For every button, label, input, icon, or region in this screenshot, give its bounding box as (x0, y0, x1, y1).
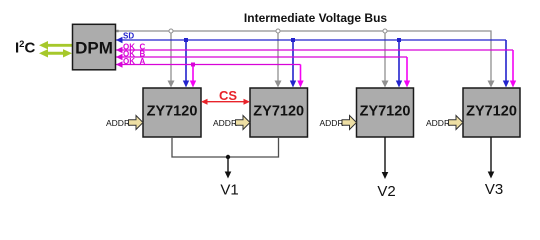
svg-text:ADDR: ADDR (106, 118, 130, 128)
svg-text:ADDR: ADDR (320, 118, 344, 128)
wire: V2 output arrow from U3 (384, 137, 386, 173)
module U1 ZY7120 (143, 88, 201, 137)
arrowhead OK C into DPM (116, 47, 123, 53)
wire: OK A signal (magenta) from DPM to U2 (116, 64, 301, 66)
arrowhead OK A into U2 top (297, 81, 303, 88)
svg-text:DPM: DPM (75, 39, 113, 58)
svg-text:CS: CS (219, 88, 237, 103)
wire: gray bus drop to U3 (384, 31, 386, 81)
wire: OK C signal (magenta) from DPM to U4 (116, 49, 513, 51)
svg-text:ZY7120: ZY7120 (360, 104, 411, 120)
svg-text:ADDR: ADDR (213, 118, 237, 128)
arrowhead SD into DPM (116, 37, 123, 43)
pin: ADDR block arrow U1 (129, 116, 144, 130)
wire: SD drop to U1 (185, 40, 187, 81)
node: bus junction above U3 (383, 29, 387, 33)
arrowheads gray into module tops (168, 81, 495, 88)
wire: SD signal (blue) from DPM to U4 (116, 39, 506, 41)
wire: CS current-share double arrow between U1 and U2 (201, 99, 250, 105)
svg-text:V2: V2 (377, 183, 395, 200)
pin: ADDR block arrow U2 (236, 116, 251, 130)
node: V1 output junction (226, 155, 230, 159)
svg-text:Intermediate Voltage Bus: Intermediate Voltage Bus (244, 11, 387, 25)
svg-text:V3: V3 (485, 181, 503, 198)
wire: I2C bus arrow upper (to DPM) (39, 41, 72, 49)
svg-text:ZY7120: ZY7120 (466, 104, 517, 120)
svg-text:SD: SD (123, 32, 134, 41)
arrowhead OK B into DPM (116, 54, 123, 60)
node: bus junction above U2 (276, 29, 280, 33)
arrowhead OK C into U4 top (510, 81, 516, 88)
svg-text:V1: V1 (220, 182, 238, 199)
wire: OK A drop to U1 (192, 65, 194, 81)
arrowhead OK A into U1 top (190, 81, 196, 88)
svg-text:ZY7120: ZY7120 (253, 104, 304, 120)
wire: SD drop to U3 (398, 40, 400, 81)
svg-text:OK A: OK A (123, 57, 145, 66)
wire: SD drop to U2 (292, 40, 294, 81)
node: SD junction dots (184, 38, 188, 42)
node: OK A junction above U1 (191, 63, 195, 67)
module U4 ZY7120 (463, 88, 520, 137)
wire: gray intermediate voltage bus from DPM to right with drop to U4 (116, 30, 118, 32)
pin: ADDR block arrow U4 (449, 116, 464, 130)
svg-text:I2C: I2C (15, 39, 35, 57)
wire: U1+U2 outputs joined to V1 (172, 137, 279, 157)
module U2 ZY7120 (250, 88, 308, 137)
wire: OK B signal (magenta) from DPM to U3 (116, 56, 407, 58)
arrowhead OK B into U3 top (404, 81, 410, 88)
svg-text:ADDR: ADDR (426, 118, 450, 128)
module U3 ZY7120 (357, 88, 414, 137)
wire: V1 output arrow (227, 157, 229, 172)
wire: V3 output arrow from U4 (490, 137, 492, 172)
arrowheads SD into module tops (183, 81, 189, 88)
node: bus junction above U1 (169, 29, 173, 33)
controller U0 DPM (73, 24, 116, 70)
wire: gray bus drop to U2 (277, 31, 279, 81)
arrowhead OK A into DPM (116, 61, 123, 67)
svg-text:ZY7120: ZY7120 (147, 104, 198, 120)
wire: gray bus drop to U1 (170, 31, 172, 81)
pin: ADDR block arrow U3 (342, 116, 357, 130)
wire: I2C bus arrow lower (bidirectional) (39, 49, 72, 57)
